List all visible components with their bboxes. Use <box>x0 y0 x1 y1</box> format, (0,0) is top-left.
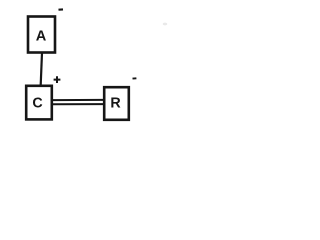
minus sign above box A <box>59 8 64 10</box>
svg-text:A: A <box>36 29 47 45</box>
faint scan smudge <box>163 23 167 26</box>
minus sign above box R <box>133 77 137 79</box>
box R <box>104 87 129 120</box>
svg-text:C: C <box>32 95 42 111</box>
double wire C to R (top line) <box>53 99 103 101</box>
svg-text:R: R <box>110 95 121 111</box>
box C <box>26 86 52 120</box>
double wire C to R (bottom line) <box>53 103 103 105</box>
plus sign at node <box>54 76 61 83</box>
wire A to C <box>41 53 42 85</box>
box A <box>28 17 55 53</box>
